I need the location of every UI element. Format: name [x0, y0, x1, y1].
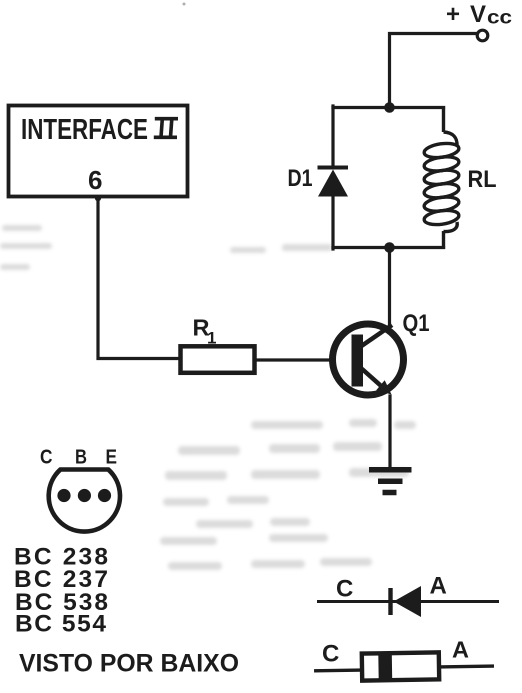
svg-text:Q1: Q1	[403, 310, 430, 337]
svg-text:C: C	[322, 641, 339, 668]
svg-text:VISTO POR BAIXO: VISTO POR BAIXO	[19, 650, 239, 678]
svg-text:A: A	[452, 637, 469, 663]
svg-text:C: C	[40, 446, 53, 469]
svg-text:6: 6	[88, 165, 102, 195]
svg-text:RL: RL	[468, 166, 497, 193]
svg-text:cc: cc	[487, 8, 513, 29]
svg-text:D1: D1	[288, 165, 313, 192]
svg-text:INTERFACE: INTERFACE	[21, 114, 148, 146]
svg-text:A: A	[430, 573, 447, 600]
svg-text:C: C	[336, 576, 353, 603]
svg-text:E: E	[106, 446, 118, 469]
svg-text:1: 1	[207, 329, 216, 348]
svg-text:B: B	[75, 446, 87, 469]
